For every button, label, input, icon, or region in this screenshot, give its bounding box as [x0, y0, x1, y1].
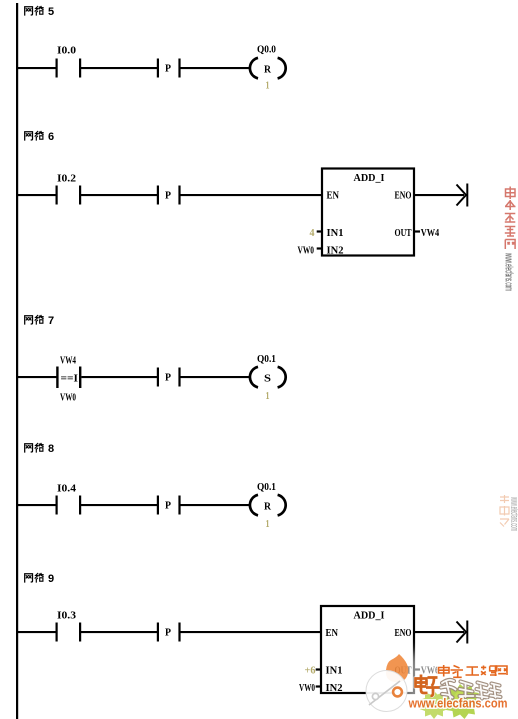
pin tick IN2 N9	[316, 685, 321, 687]
svg-text:IN1: IN1	[326, 665, 343, 677]
compare contact ==I	[56, 355, 81, 404]
svg-text:Q0.1: Q0.1	[257, 353, 276, 365]
contact I0.4	[56, 483, 82, 515]
wire P to coil N8	[180, 504, 250, 506]
watermark hanzi row 中华工控网 white halo	[439, 665, 508, 677]
svg-text:Q0.1: Q0.1	[257, 481, 276, 493]
svg-text:4: 4	[310, 227, 315, 239]
svg-text:1: 1	[266, 390, 270, 402]
svg-text:Q0.0: Q0.0	[257, 44, 276, 56]
left power rail	[16, 3, 18, 719]
svg-text:EN: EN	[326, 627, 339, 639]
network 7 label 网络7	[25, 315, 54, 327]
svg-text:I0.0: I0.0	[57, 45, 77, 57]
coil R Q0.1 network 8	[250, 481, 286, 515]
network 7 wire: rail to compare contact	[17, 376, 57, 378]
contact P (positive edge) network 5	[157, 59, 181, 78]
orange flame blob of elecfans logo	[386, 654, 408, 682]
svg-text:P: P	[165, 627, 171, 639]
white circle plug icon	[366, 671, 407, 712]
svg-text:1: 1	[266, 80, 270, 92]
contact I0.0	[56, 45, 82, 78]
wire P to coil	[180, 67, 250, 69]
svg-text:www.elecfans.com: www.elecfans.com	[408, 696, 508, 711]
svg-text:I0.4: I0.4	[57, 483, 77, 495]
svg-text:P: P	[165, 372, 171, 384]
svg-text:+6: +6	[305, 665, 316, 677]
svg-text:8: 8	[48, 443, 54, 455]
pin tick OUT N9	[414, 668, 420, 670]
svg-text:I0.2: I0.2	[57, 173, 77, 185]
svg-text:9: 9	[48, 573, 54, 585]
svg-text:ENO: ENO	[395, 190, 412, 202]
wire I0.2 to P	[81, 194, 157, 196]
svg-text:www.elecfans.com: www.elecfans.com	[503, 253, 515, 291]
wire ==I to P	[81, 376, 157, 378]
svg-text:www.elecfans.com: www.elecfans.com	[508, 497, 518, 531]
stylized hanzi 子 orange	[426, 678, 440, 697]
pin tick IN1 N6	[317, 230, 322, 232]
wire I0.3 to P	[81, 631, 157, 633]
contact I0.2	[56, 173, 82, 205]
svg-text:6: 6	[48, 131, 54, 143]
pin tick IN1 N9	[316, 668, 321, 670]
svg-text:VW4: VW4	[60, 355, 76, 367]
stylized hanzi 发烧友 outlined white	[441, 680, 501, 699]
continuation arrow N6	[457, 184, 468, 207]
svg-text:1: 1	[266, 518, 270, 530]
wire P to ADD_I box EN	[180, 194, 322, 196]
ADD_I box network 6	[322, 169, 414, 257]
svg-text:VW4: VW4	[421, 227, 440, 239]
svg-text:==I: ==I	[61, 373, 79, 385]
white fog under watermark	[402, 652, 518, 719]
green gear of elecfans logo	[445, 684, 481, 719]
svg-text:OUT: OUT	[395, 227, 412, 239]
svg-text:VW0: VW0	[298, 245, 315, 257]
wire I0.4 to P	[81, 504, 157, 506]
svg-text:5: 5	[48, 6, 54, 18]
svg-text:ADD_I: ADD_I	[354, 610, 385, 622]
svg-text:VW0: VW0	[60, 392, 76, 404]
svg-text:IN2: IN2	[326, 682, 343, 694]
watermark logo bottom right	[366, 652, 518, 719]
wire I0.0 to P	[81, 67, 157, 69]
contact P network 8	[157, 496, 181, 515]
network 6 wire: rail to contact I0.2	[17, 194, 56, 196]
continuation arrow N9	[457, 621, 468, 644]
contact P network 9	[157, 623, 181, 642]
svg-text:ENO: ENO	[395, 627, 412, 639]
network 8 label 网络8	[25, 443, 54, 455]
network 5 wire: rail to contact I0.0	[17, 67, 56, 69]
network 9 label 网络9	[25, 573, 54, 585]
svg-text:R: R	[264, 64, 272, 76]
svg-text:P: P	[165, 190, 171, 202]
wire ENO to continuation arrow N9	[414, 631, 464, 633]
ADD_I box network 9	[321, 606, 414, 694]
svg-text:IN2: IN2	[327, 245, 344, 257]
stylized hanzi 电 orange	[416, 675, 428, 694]
wire ENO to continuation arrow N6	[414, 194, 464, 196]
network 5 label 网络5	[25, 6, 54, 18]
svg-text:P: P	[165, 500, 171, 512]
network 9 wire: rail to contact I0.3	[17, 631, 56, 633]
svg-text:IN1: IN1	[327, 227, 344, 239]
coil S Q0.1	[250, 353, 286, 387]
contact P network 6	[157, 186, 181, 205]
watermark faint orange right edge mid	[500, 495, 518, 531]
pin tick IN2 N6	[317, 247, 322, 249]
pin tick OUT N6	[414, 230, 420, 232]
contact P network 7	[157, 368, 181, 387]
contact I0.3	[56, 610, 82, 642]
svg-text:P: P	[165, 63, 171, 75]
svg-text:ADD_I: ADD_I	[354, 172, 385, 184]
svg-text:EN: EN	[327, 190, 340, 202]
svg-text:VW0: VW0	[299, 682, 315, 694]
watermark vertical red text right edge	[503, 187, 516, 292]
svg-text:R: R	[264, 501, 272, 513]
wire P to coil N7	[180, 376, 250, 378]
svg-text:7: 7	[48, 315, 54, 327]
wire P to ADD_I box EN N9	[180, 631, 321, 633]
svg-text:I0.3: I0.3	[57, 610, 77, 622]
svg-text:S: S	[264, 373, 271, 385]
watermark hanzi row 中华工控网 orange strokes	[439, 665, 508, 677]
coil R Q0.0	[250, 44, 286, 79]
network 8 wire: rail to contact I0.4	[17, 504, 56, 506]
network 6 label 网络6	[25, 131, 54, 143]
